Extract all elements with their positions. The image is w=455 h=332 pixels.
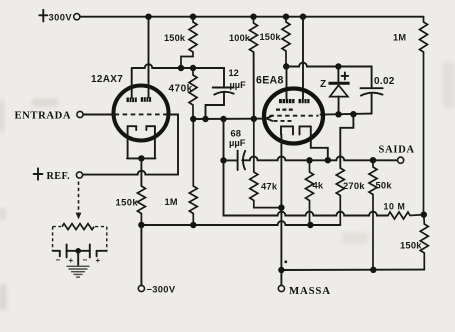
tube V1 12AX7 envelope [91,74,169,141]
svg-text:−300V: −300V [147,284,176,295]
node screen node 286,66.5 [283,63,289,69]
wire REF to grid (hops cathode lead) [83,171,178,175]
wire triode grid line y114 [321,114,372,115]
wire V2 triode plate lead to rail [302,17,304,99]
wire anode node y68 [132,64,224,87]
ground symbol [67,266,90,277]
tube V1 grid (dashed) [115,113,168,115]
resistor R10 270k [336,168,365,225]
svg-text:4k: 4k [313,179,324,190]
wire ENTRADA to V1 grid [83,114,114,116]
wire bottom massa bus [281,269,424,271]
svg-text:270k: 270k [343,180,365,191]
svg-text:µµF: µµF [229,137,246,148]
capacitor C3 0.02 [361,76,395,114]
wire triode cathode to SAIDA bus [311,135,328,161]
wire 100k to grid bus and 47k [253,52,255,119]
svg-text:1M: 1M [165,197,178,207]
wire drop from grid bus to 68uuF and feedback line [224,119,389,216]
terminal MASSA [278,285,330,297]
wire V1 cathode lead down [140,158,142,186]
resistor R2 470k [169,68,198,119]
svg-text:6EA8: 6EA8 [256,74,284,86]
battery box dashed outline [53,227,107,251]
wire V2 grid entry fork [266,116,272,121]
svg-text:+: + [69,256,74,265]
svg-text:100k: 100k [229,33,251,43]
stray ink dot [284,260,287,263]
svg-text:SAIDA: SAIDA [379,144,415,155]
diode D1 zener Z [320,67,350,115]
resistor R1 150k (plate load left) [164,17,197,68]
node SAIDA bus cathode [325,157,331,163]
svg-text:12AX7: 12AX7 [91,74,123,85]
resistor R13 150k (bottom right) [400,215,428,270]
wire REF arrowhead [76,213,82,220]
svg-text:10 M: 10 M [384,201,406,211]
terminal -300V [138,284,176,295]
wire screen node to 0.02 (hops triode plate lead) [286,63,371,89]
resistor R12 10M (horizontal) [384,201,424,219]
tube V1 cathode box [127,126,156,158]
terminal +300V [39,10,80,23]
tube V2 6EA8 envelope [256,74,323,143]
svg-text:µµF: µµF [230,80,247,90]
node A rail junction x149 [145,14,151,20]
wire V1 plate-b lead to rail [148,17,150,98]
node -300V bus at 150k [138,222,144,228]
wire massa stub [280,270,282,285]
svg-text:47k: 47k [261,181,278,192]
battery B2 [78,244,107,265]
wire grid bus y119 [193,118,267,120]
tube V2 control grid dashes [270,115,319,117]
wire V1 plate-a lead [131,68,133,98]
wire massa column (pentode cathode down) [280,135,282,271]
svg-text:150k: 150k [260,32,282,42]
tube V1 plate a (hatched) [127,98,137,103]
svg-text:50k: 50k [376,180,393,191]
resistor R7 1M (bottom left) [165,119,198,225]
resistor R5 1M (right edge) [393,17,428,215]
node grid bus 205.5 [202,116,208,122]
node feedback divider 10M/1M/150k [421,211,427,217]
svg-text:−: − [56,256,61,265]
svg-text:ENTRADA: ENTRADA [15,110,72,121]
svg-text:150k: 150k [116,196,139,207]
tube V2 suppressor grid dashes [274,120,295,122]
node 47k to massa line [278,204,284,210]
paper shading [0,62,455,310]
wire 270k jog from grid line [340,114,353,168]
node grid line zener [335,111,341,117]
tube V2 triode cathode [300,126,311,134]
resistor R3 100k [229,17,258,53]
capacitor C2 68uuF [224,127,246,170]
svg-text:MASSA: MASSA [289,285,331,297]
wire SAIDA bus y160 (hops 47k and massa lines) [242,156,397,160]
node dot2 193,68 [190,65,196,71]
node 68uuF tap [220,157,226,163]
terminal +REF [34,168,83,182]
svg-text:150k: 150k [400,240,422,251]
node bottom bus 50k [370,267,376,273]
node E rail junction x303 [300,14,306,20]
node battery center [75,248,81,254]
resistor R6 150k cathode (bottom left) [116,186,146,225]
svg-text:Z: Z [320,79,326,90]
svg-text:REF.: REF. [47,171,71,182]
terminal ENTRADA [15,110,84,121]
node grid line 270k tap [350,111,356,117]
resistor R9 4k [306,160,324,225]
wire V1 right grid exit to REF [168,115,179,175]
tube V2 triode plate (hatched) [299,99,310,103]
wire top rail +300V bus [80,16,424,18]
svg-text:1M: 1M [393,32,406,42]
resistor R4 150k (screen load) [260,17,291,67]
node SAIDA bus 50k top [370,157,376,163]
node grid bus 254 [251,116,257,122]
svg-text:150k: 150k [164,33,186,43]
node V1 cathode junction [138,155,144,161]
svg-text:12: 12 [229,68,239,78]
wire REF dashed drop [78,182,80,214]
resistor R11 50k [369,160,392,270]
battery B1 [53,244,79,265]
node D rail junction x286 [283,14,289,20]
node zener top [335,63,341,69]
svg-text:−: − [83,256,88,265]
node -300V bus at 1M [190,222,196,228]
node SAIDA bus 4k top [306,157,312,163]
node grid bus 223.5 [220,116,226,122]
capacitor C1 12uuF [206,68,247,119]
node C rail junction x253 [250,14,256,20]
wire V2 pentode plate lead [286,67,288,100]
resistor R8 47k [250,119,282,208]
wire -300V bus [141,221,340,225]
node dot1 181,68 [178,65,184,71]
svg-text:+: + [96,256,101,265]
tube V2 pentode plate (hatched) [279,99,295,103]
node -300V bus at 4k [307,222,313,228]
wire -300V terminal lead [140,225,142,285]
tube V2 pentode cathode [281,126,293,134]
wire battery center to ground [77,251,79,265]
tube V2 screen grid dashes [276,108,295,110]
svg-text:300V: 300V [49,12,73,23]
tube V1 plate b (hatched) [141,97,151,102]
node bottom bus massa [278,267,284,273]
terminal SAIDA [379,144,415,163]
potentiometer P1 [62,224,94,230]
node B rail junction x193 [190,14,196,20]
node grid bus 193 [190,116,196,122]
svg-text:0.02: 0.02 [374,76,395,87]
